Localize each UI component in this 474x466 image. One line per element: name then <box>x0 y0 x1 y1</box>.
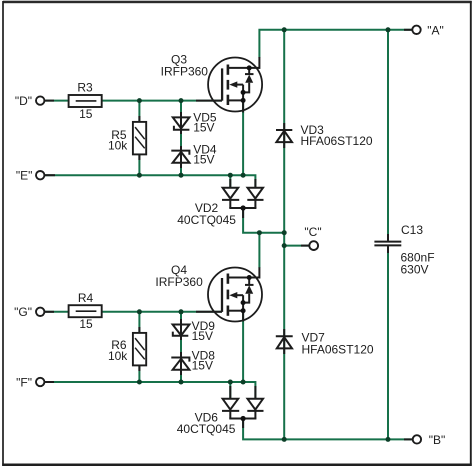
svg-text:15: 15 <box>79 317 93 331</box>
dual diode VD2 <box>222 188 264 208</box>
svg-text:15V: 15V <box>192 329 213 343</box>
MOSFET Q3 <box>208 58 262 112</box>
wire VD3-VD7 vertical x=284 <box>283 30 285 440</box>
wire VD5-VD4 stem <box>180 101 182 176</box>
svg-text:15V: 15V <box>192 358 213 372</box>
Q3 drain lead black <box>258 57 260 69</box>
svg-text:10k: 10k <box>108 138 128 152</box>
R5 leads black <box>138 116 140 122</box>
svg-text:10k: 10k <box>108 349 128 363</box>
black lead overlays <box>44 30 412 440</box>
terminal F <box>36 378 44 386</box>
wire VD6 left stem <box>229 382 231 399</box>
C13 lead black <box>387 234 389 241</box>
VD8 lead black <box>180 352 182 375</box>
zener diode VD9 <box>173 325 190 336</box>
zener diode VD5 <box>173 117 190 129</box>
svg-text:IRFP360: IRFP360 <box>155 275 203 289</box>
svg-text:HFA06ST120: HFA06ST120 <box>301 134 373 148</box>
zener diode VD4 <box>171 151 189 163</box>
svg-text:"G": "G" <box>14 305 32 319</box>
terminal C <box>309 241 318 250</box>
dual diode VD6 <box>222 399 264 419</box>
terminal D <box>36 96 44 104</box>
svg-text:15: 15 <box>79 107 93 121</box>
junction dots black <box>241 65 252 421</box>
Q4 gate lead black <box>196 311 222 313</box>
terminal B <box>413 435 421 443</box>
Q3 gate lead black <box>196 100 222 102</box>
VD4 lead black <box>180 146 182 168</box>
svg-text:"C": "C" <box>304 225 321 239</box>
svg-text:R4: R4 <box>78 291 94 305</box>
VD5 lead black <box>180 112 182 134</box>
capacitor C13 <box>374 242 401 246</box>
MOSFET Q4 <box>208 268 262 322</box>
resistor R4 <box>69 305 102 317</box>
wire VD9-VD8 stem <box>180 312 182 382</box>
svg-text:15V: 15V <box>193 121 214 135</box>
Q3 source lead black <box>242 100 244 112</box>
wire Q4 source down <box>242 311 244 382</box>
resistor R5 <box>133 122 146 154</box>
junction dots green wires <box>137 27 391 442</box>
svg-text:15V: 15V <box>193 153 214 167</box>
VD6 stems black <box>229 386 231 399</box>
wire C13 vertical x=388 <box>387 30 389 241</box>
VD7 lead black <box>283 329 285 354</box>
svg-text:40CTQ045: 40CTQ045 <box>177 422 236 436</box>
resistor R3 <box>69 95 102 107</box>
wire Q3 source down <box>242 100 244 175</box>
VD3 lead black <box>283 123 285 148</box>
terminal G <box>36 308 44 316</box>
wire R6 leads <box>138 312 140 382</box>
VD9 lead black <box>180 319 182 340</box>
svg-text:40CTQ045: 40CTQ045 <box>177 213 236 227</box>
wire E-line <box>44 175 255 188</box>
wire A-line top <box>259 30 412 58</box>
terminal stubs black <box>44 100 54 102</box>
wire Q4 drain drop <box>258 233 260 268</box>
svg-text:"A": "A" <box>427 23 444 37</box>
zener diode VD8 <box>171 358 189 370</box>
resistor R6 <box>133 333 146 366</box>
svg-text:"D": "D" <box>15 94 32 108</box>
wire VD2 left stem <box>229 175 231 188</box>
svg-text:"E": "E" <box>16 169 33 183</box>
svg-text:"B": "B" <box>429 433 446 447</box>
svg-text:630V: 630V <box>401 262 429 276</box>
svg-text:"F": "F" <box>16 375 32 389</box>
R6 leads black <box>138 327 140 333</box>
wire F-line <box>44 382 255 399</box>
diode VD3 <box>276 130 292 142</box>
wire R5 leads <box>138 101 140 176</box>
diode VD7 <box>276 336 293 348</box>
wire VD2 center to C-line <box>243 208 284 233</box>
svg-text:R3: R3 <box>77 81 93 95</box>
terminal A <box>412 26 420 34</box>
VD2 stems black <box>229 179 231 188</box>
wire G-line <box>44 311 222 313</box>
terminal E <box>36 171 44 179</box>
svg-text:C13: C13 <box>401 223 423 237</box>
wire VD6 center to B-line <box>243 419 413 440</box>
Q4 source lead black <box>242 311 244 322</box>
svg-text:HFA06ST120: HFA06ST120 <box>302 343 374 357</box>
svg-text:IRFP360: IRFP360 <box>161 65 209 79</box>
wire C terminal stub <box>284 245 309 247</box>
Q4 drain lead black <box>258 267 260 278</box>
wire D-line <box>44 100 222 102</box>
